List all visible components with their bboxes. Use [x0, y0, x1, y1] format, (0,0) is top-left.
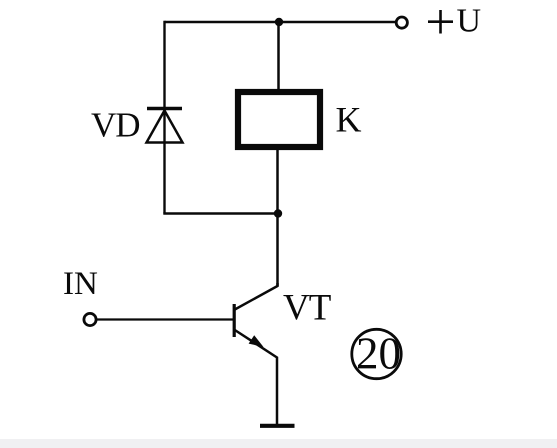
- wire bottom-left horizontal to junction: [163, 212, 278, 214]
- ground symbol: [260, 424, 295, 428]
- svg-text:U: U: [457, 3, 482, 40]
- wire top horizontal from corner to +U terminal: [165, 21, 396, 24]
- relay K coil rectangle: [238, 92, 320, 147]
- svg-text:VT: VT: [283, 288, 331, 329]
- wire vertical from relay K to lower junction: [276, 149, 279, 214]
- svg-text:20: 20: [356, 329, 401, 379]
- wire vertical from top junction to relay K: [277, 22, 280, 90]
- wire base horizontal from IN terminal to transistor base: [97, 318, 233, 320]
- wire collector vertical from lower junction to transistor: [276, 214, 279, 287]
- figure number 20 (circled): [352, 329, 401, 379]
- svg-text:IN: IN: [63, 266, 98, 302]
- terminal +U open circle: [396, 17, 407, 28]
- transistor VT (base bar, collector and emitter legs): [234, 283, 277, 424]
- terminal IN open circle: [84, 313, 96, 325]
- diode VD (cathode bar and triangle): [147, 109, 183, 143]
- svg-text:K: K: [336, 100, 362, 140]
- node junction dot lower (diode/relay/collector): [274, 209, 282, 217]
- node junction dot top (+U rail): [275, 18, 283, 26]
- transistor emitter arrowhead: [249, 335, 264, 347]
- svg-text:VD: VD: [91, 106, 140, 145]
- label +U: [428, 3, 481, 40]
- wire left vertical (anode branch through diode): [163, 21, 165, 214]
